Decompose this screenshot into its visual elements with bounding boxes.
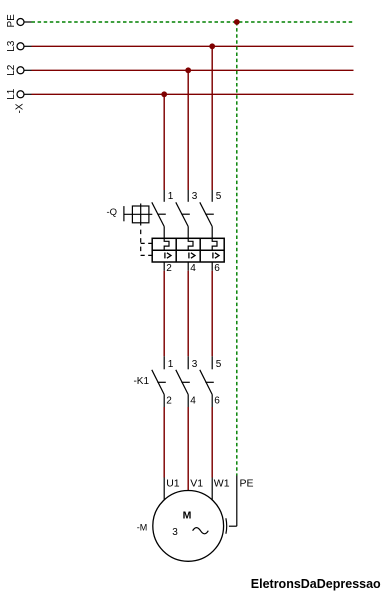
svg-text:PE: PE — [6, 14, 17, 28]
svg-text:4: 4 — [190, 396, 196, 407]
svg-text:U1: U1 — [166, 478, 180, 490]
svg-text:3: 3 — [192, 359, 198, 370]
svg-text:EletronsDaDepressao: EletronsDaDepressao — [251, 577, 381, 591]
svg-text:5: 5 — [216, 191, 222, 202]
svg-text:6: 6 — [214, 396, 220, 407]
svg-text:3: 3 — [172, 527, 178, 538]
svg-text:-Q: -Q — [106, 207, 117, 218]
svg-text:W1: W1 — [214, 478, 230, 490]
svg-text:L3: L3 — [6, 40, 17, 52]
svg-text:L1: L1 — [6, 88, 17, 100]
svg-text:6: 6 — [214, 263, 220, 274]
svg-text:2: 2 — [166, 396, 172, 407]
svg-text:5: 5 — [216, 359, 222, 370]
svg-text:-M: -M — [137, 523, 148, 533]
svg-text:2: 2 — [166, 263, 172, 274]
svg-text:PE: PE — [240, 478, 254, 490]
svg-text:-X: -X — [15, 103, 26, 113]
svg-text:L2: L2 — [6, 64, 17, 76]
svg-text:V1: V1 — [190, 478, 203, 490]
svg-text:1: 1 — [168, 359, 174, 370]
svg-text:3: 3 — [192, 191, 198, 202]
svg-text:4: 4 — [190, 263, 196, 274]
svg-text:-K1: -K1 — [133, 376, 149, 387]
svg-text:1: 1 — [168, 191, 174, 202]
svg-text:M: M — [183, 509, 192, 521]
